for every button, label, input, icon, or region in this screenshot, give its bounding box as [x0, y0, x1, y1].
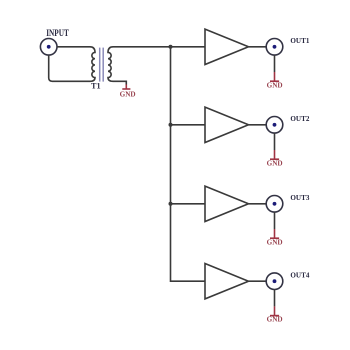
connector J-OUT1 center pin dot	[273, 45, 277, 49]
junction at bus row3	[169, 202, 173, 206]
amplifier U3	[205, 186, 249, 221]
connector J-OUT4	[266, 273, 283, 290]
svg-text:OUT1: OUT1	[290, 36, 309, 45]
junction at bus row1	[169, 45, 173, 49]
wire amp U4 output	[249, 280, 267, 282]
svg-text:OUT2: OUT2	[290, 114, 309, 123]
wire bus to amp U3 input	[171, 203, 206, 205]
svg-text:GND: GND	[120, 91, 136, 99]
ground GND (OUT3)	[270, 229, 279, 238]
connector J-INPUT center pin dot	[47, 45, 51, 49]
transformer T1 primary winding	[90, 47, 95, 82]
svg-text:OUT3: OUT3	[290, 193, 309, 202]
svg-text:GND: GND	[267, 159, 283, 167]
wire secondary bottom to ground stub	[113, 81, 126, 84]
transformer T1 core	[100, 48, 104, 82]
svg-text:T1: T1	[91, 81, 101, 91]
wire input-top to transformer primary	[57, 46, 90, 48]
wire OUT1 to ground	[274, 55, 276, 72]
amplifier U4	[205, 264, 249, 299]
wire bus to amp U2 input	[171, 124, 206, 126]
svg-text:GND: GND	[267, 316, 283, 324]
ground GND (OUT4)	[270, 306, 279, 315]
connector J-OUT2	[266, 117, 283, 134]
connector J-OUT2 center pin dot	[273, 123, 277, 127]
connector J-OUT4 center pin dot	[273, 279, 277, 283]
connector J-OUT3	[266, 196, 283, 213]
connector J-OUT3 center pin dot	[273, 202, 277, 206]
transformer T1 secondary winding	[108, 47, 113, 82]
wire secondary top to bus and amp U1 input	[113, 46, 205, 48]
amplifier U1	[205, 29, 249, 64]
wire input-bottom loop to transformer primary bottom	[49, 55, 90, 81]
svg-text:GND: GND	[267, 238, 283, 246]
svg-text:OUT4: OUT4	[290, 270, 309, 279]
connector J-OUT1	[266, 39, 283, 56]
wire OUT3 to ground	[274, 212, 276, 229]
svg-text:INPUT: INPUT	[46, 29, 69, 39]
wire amp U2 output	[249, 124, 267, 126]
wire vertical bus	[171, 47, 206, 281]
ground GND (OUT1)	[270, 72, 279, 81]
connector J-INPUT	[40, 39, 57, 56]
ground GND (transformer secondary)	[122, 85, 130, 90]
wire OUT4 to ground	[274, 290, 276, 307]
svg-text:GND: GND	[267, 81, 283, 89]
wire amp U3 output	[249, 203, 267, 205]
amplifier U2	[205, 107, 249, 142]
wire OUT2 to ground	[274, 133, 276, 150]
junction at bus row2	[169, 123, 173, 127]
ground GND (OUT2)	[270, 150, 279, 159]
wire amp U1 output	[249, 46, 267, 48]
